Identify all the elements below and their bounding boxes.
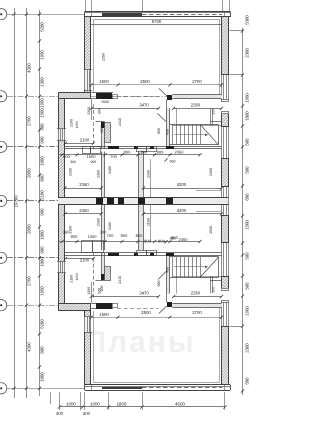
svg-text:2410: 2410 <box>118 276 122 284</box>
svg-text:700: 700 <box>110 154 117 159</box>
svg-text:2350: 2350 <box>97 170 101 178</box>
svg-text:1000: 1000 <box>40 230 45 240</box>
svg-text:Планы: Планы <box>84 326 195 359</box>
svg-text:2850: 2850 <box>27 224 32 234</box>
svg-text:1360: 1360 <box>40 77 45 87</box>
svg-text:800: 800 <box>63 154 70 159</box>
svg-text:800: 800 <box>40 346 45 354</box>
svg-text:1950: 1950 <box>40 50 45 60</box>
svg-text:360: 360 <box>70 160 76 164</box>
svg-text:2450: 2450 <box>175 149 185 154</box>
svg-text:500: 500 <box>245 166 250 174</box>
svg-text:2160: 2160 <box>147 218 151 226</box>
svg-text:1950: 1950 <box>40 98 45 108</box>
svg-text:1500: 1500 <box>40 108 45 118</box>
svg-text:360: 360 <box>63 230 70 235</box>
svg-text:2360: 2360 <box>209 168 213 176</box>
svg-text:4200: 4200 <box>177 182 187 187</box>
svg-text:900: 900 <box>40 246 45 254</box>
svg-text:800: 800 <box>124 149 131 154</box>
svg-text:900: 900 <box>71 234 78 239</box>
svg-text:950: 950 <box>170 160 176 164</box>
svg-text:500: 500 <box>245 282 250 290</box>
svg-text:600: 600 <box>245 193 250 201</box>
svg-text:1000: 1000 <box>40 372 45 382</box>
svg-text:450: 450 <box>166 267 170 273</box>
svg-text:2350: 2350 <box>191 291 201 296</box>
svg-text:2300: 2300 <box>245 48 250 58</box>
svg-text:300: 300 <box>56 411 64 416</box>
svg-text:2350: 2350 <box>191 103 201 108</box>
svg-text:1500: 1500 <box>245 220 250 230</box>
svg-text:1000: 1000 <box>90 402 100 407</box>
svg-text:2700: 2700 <box>192 79 202 84</box>
svg-text:2300: 2300 <box>245 343 250 353</box>
svg-text:500: 500 <box>245 252 250 260</box>
svg-text:3480: 3480 <box>108 166 112 174</box>
svg-text:2410: 2410 <box>118 118 122 126</box>
svg-text:950: 950 <box>157 281 161 287</box>
svg-text:2160: 2160 <box>70 275 74 283</box>
svg-text:2700: 2700 <box>27 116 32 126</box>
svg-text:900: 900 <box>91 160 97 164</box>
svg-text:2500: 2500 <box>140 79 150 84</box>
svg-text:2350: 2350 <box>97 218 101 226</box>
svg-text:3480: 3480 <box>108 222 112 230</box>
svg-text:5200: 5200 <box>40 319 45 329</box>
svg-text:1000: 1000 <box>40 257 45 267</box>
svg-text:900: 900 <box>100 286 104 292</box>
svg-text:300: 300 <box>40 123 45 131</box>
svg-text:1000: 1000 <box>66 402 76 407</box>
svg-text:4500: 4500 <box>175 402 185 407</box>
svg-text:900: 900 <box>40 208 45 216</box>
svg-text:1500: 1500 <box>87 154 97 159</box>
svg-text:1950: 1950 <box>75 121 79 128</box>
svg-text:1960: 1960 <box>245 93 250 103</box>
svg-text:2100: 2100 <box>80 138 90 143</box>
svg-text:4200: 4200 <box>177 208 187 213</box>
svg-text:2500: 2500 <box>209 226 213 234</box>
svg-text:1300: 1300 <box>87 107 91 115</box>
svg-text:2350: 2350 <box>102 53 106 61</box>
svg-text:5200: 5200 <box>40 22 45 32</box>
svg-text:200: 200 <box>83 411 91 416</box>
svg-text:1960: 1960 <box>245 306 250 316</box>
svg-text:2160: 2160 <box>70 119 74 127</box>
svg-text:450: 450 <box>166 129 170 135</box>
svg-text:900: 900 <box>40 136 45 144</box>
svg-text:2360: 2360 <box>79 208 89 213</box>
svg-text:19700: 19700 <box>14 195 19 208</box>
svg-text:500: 500 <box>245 377 250 385</box>
svg-text:950: 950 <box>170 236 176 240</box>
svg-text:500: 500 <box>97 108 101 114</box>
svg-text:150: 150 <box>212 109 216 115</box>
svg-text:2450: 2450 <box>179 237 189 242</box>
svg-text:3470: 3470 <box>139 291 149 296</box>
svg-text:800: 800 <box>157 149 164 154</box>
svg-text:1300: 1300 <box>88 234 98 239</box>
svg-text:5300: 5300 <box>245 15 250 25</box>
svg-text:1000: 1000 <box>40 156 45 166</box>
svg-text:1950: 1950 <box>75 273 79 280</box>
svg-text:2100: 2100 <box>40 190 45 200</box>
svg-text:4300: 4300 <box>27 342 32 352</box>
svg-text:3470: 3470 <box>139 103 149 108</box>
svg-text:2700: 2700 <box>27 276 32 286</box>
svg-text:2160: 2160 <box>69 168 73 176</box>
svg-text:1950: 1950 <box>40 286 45 296</box>
svg-text:1300: 1300 <box>87 287 91 295</box>
svg-text:1800: 1800 <box>117 402 127 407</box>
svg-text:1500: 1500 <box>99 79 109 84</box>
svg-text:1530: 1530 <box>100 125 104 133</box>
svg-text:150: 150 <box>212 287 216 293</box>
svg-text:2160: 2160 <box>147 170 151 178</box>
svg-text:900: 900 <box>121 233 128 238</box>
svg-text:950: 950 <box>157 128 161 134</box>
svg-text:2850: 2850 <box>27 168 32 178</box>
svg-text:800: 800 <box>136 233 143 238</box>
svg-text:4300: 4300 <box>27 63 32 73</box>
svg-text:2360: 2360 <box>79 182 89 187</box>
svg-text:1500: 1500 <box>99 312 109 317</box>
svg-text:2700: 2700 <box>192 310 202 315</box>
svg-text:1000: 1000 <box>245 111 250 121</box>
svg-text:2500: 2500 <box>141 310 151 315</box>
svg-text:700: 700 <box>107 233 114 238</box>
svg-text:800: 800 <box>158 239 165 244</box>
svg-text:2100: 2100 <box>80 257 90 262</box>
svg-text:800: 800 <box>141 149 148 154</box>
svg-text:1500: 1500 <box>101 100 109 104</box>
svg-text:500: 500 <box>245 138 250 146</box>
svg-text:800: 800 <box>40 174 45 182</box>
